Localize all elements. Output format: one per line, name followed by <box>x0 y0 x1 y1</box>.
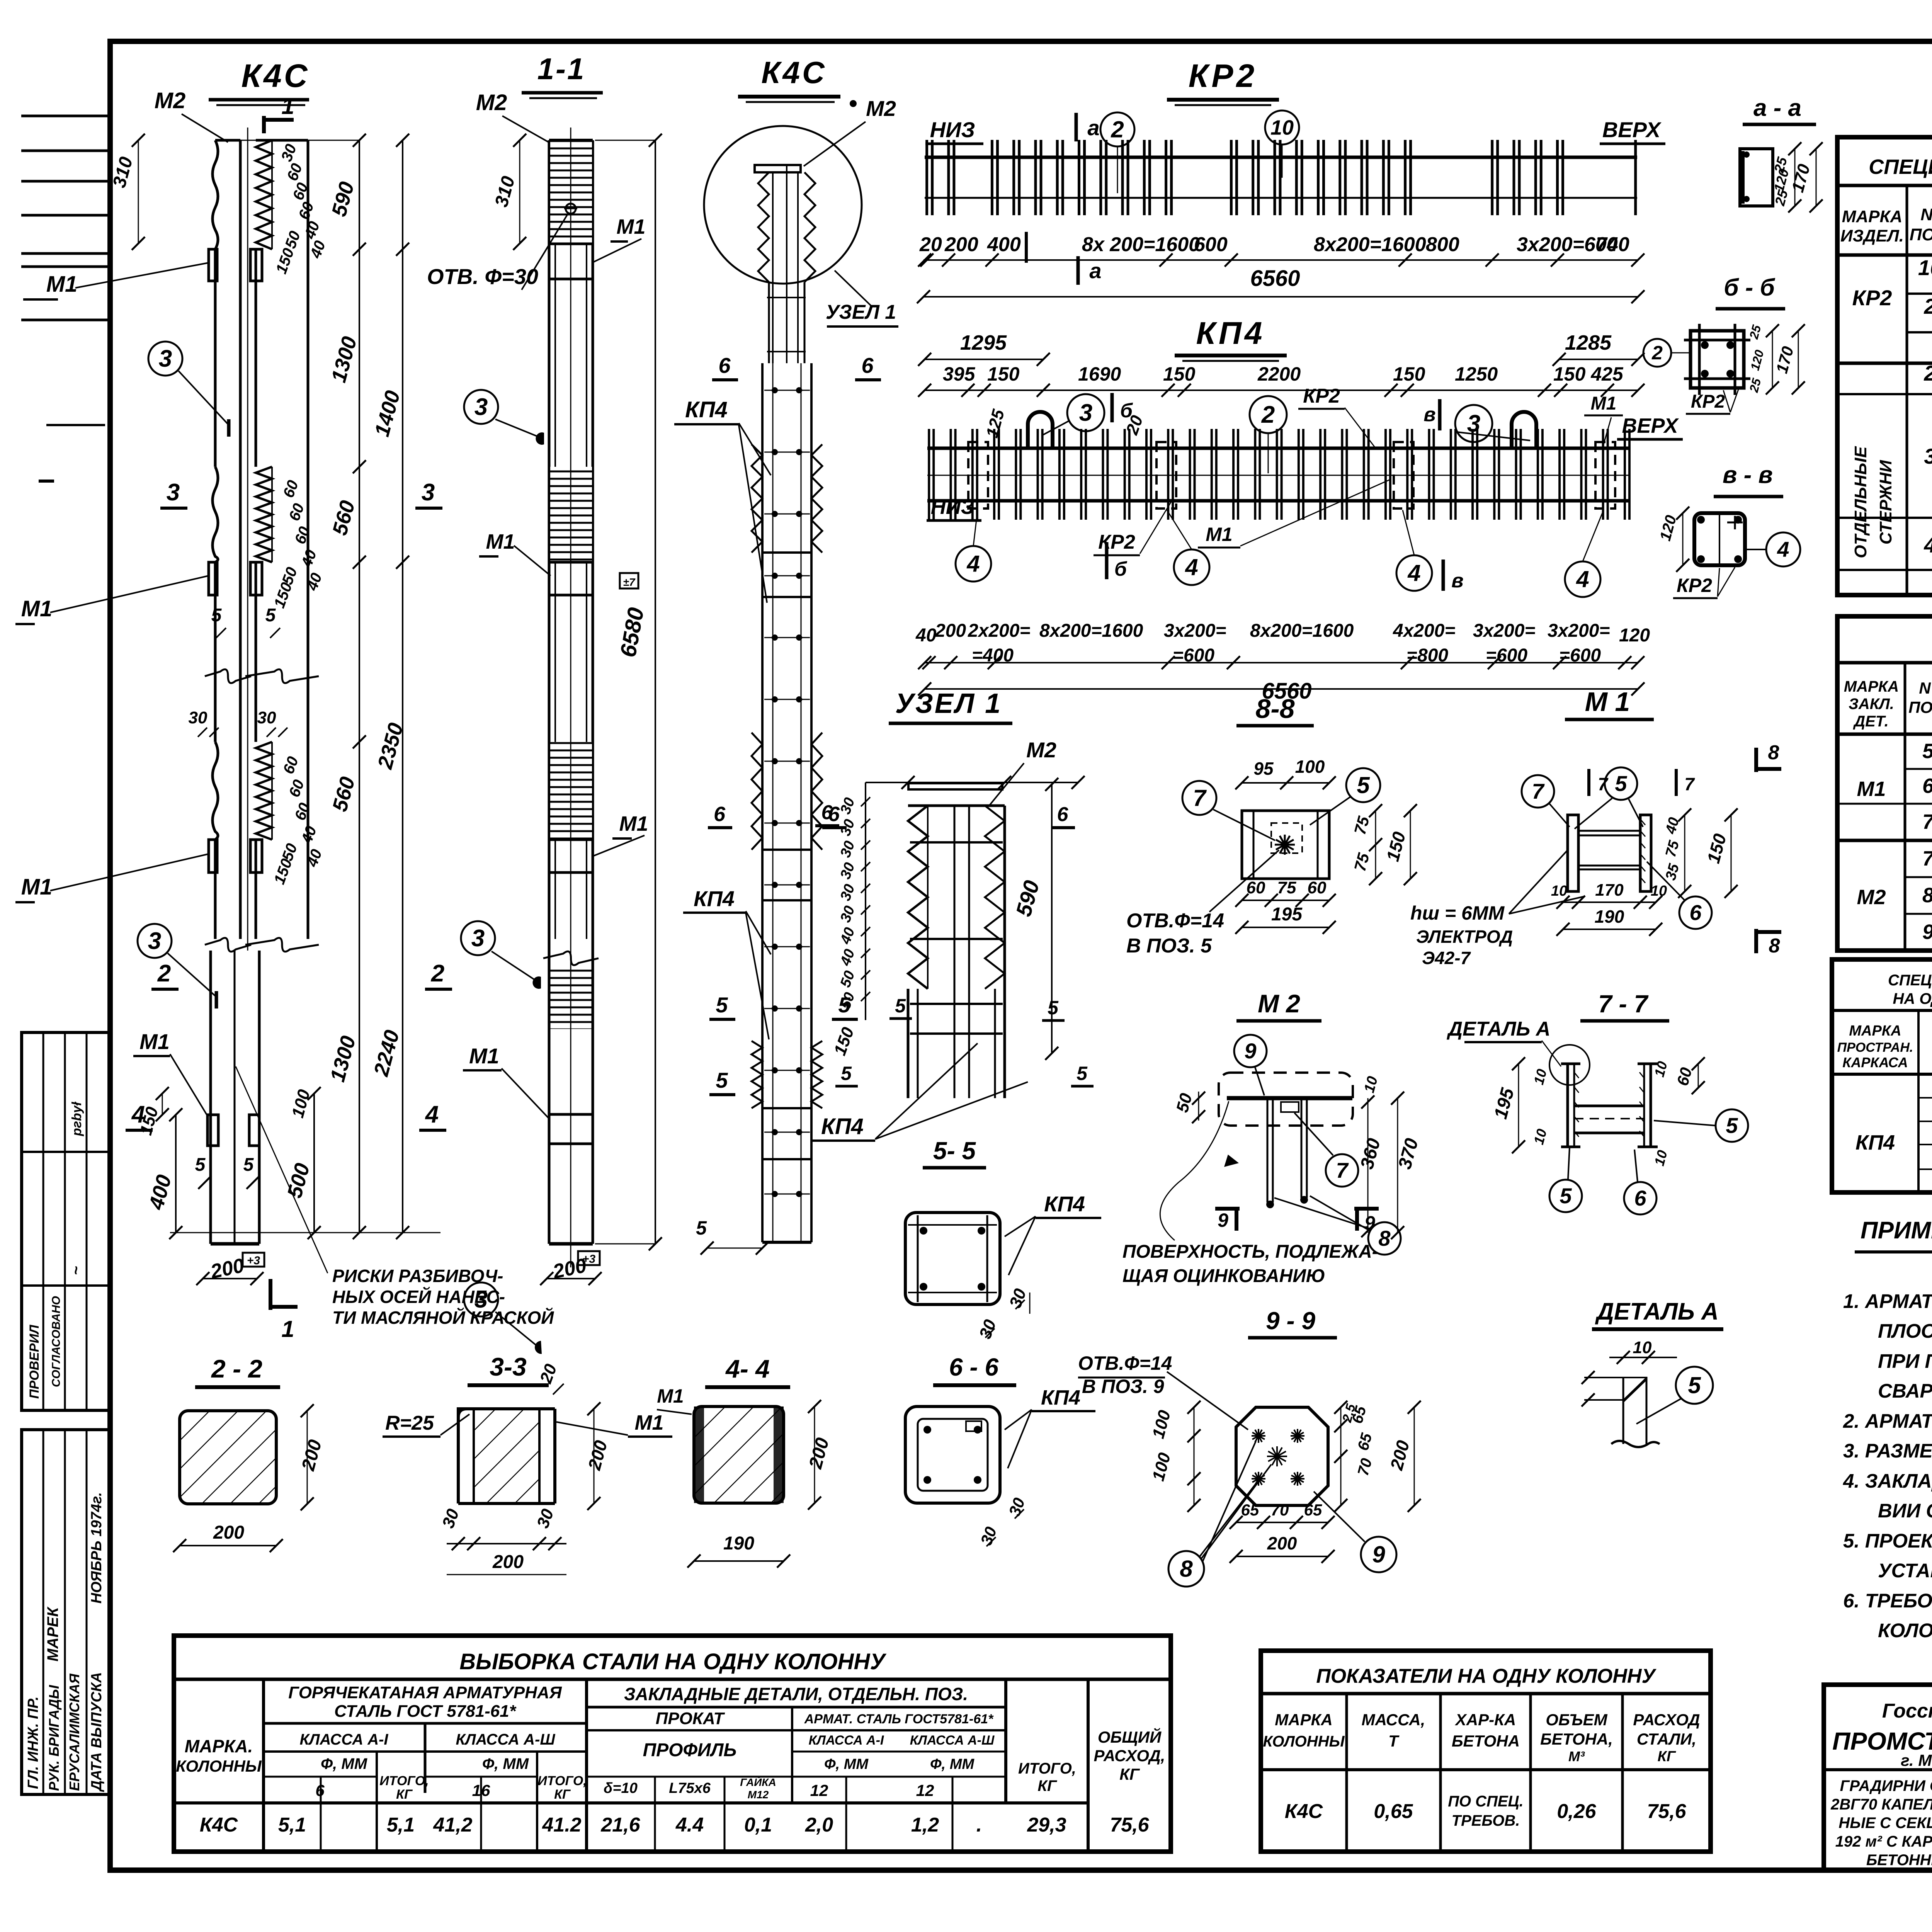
svg-text:НИЗ: НИЗ <box>930 117 975 142</box>
detail M1 top marks 7 <box>1587 769 1590 796</box>
svg-text:2: 2 <box>157 960 171 987</box>
svg-text:ТИ МАСЛЯНОЙ КРАСКОЙ: ТИ МАСЛЯНОЙ КРАСКОЙ <box>332 1308 554 1328</box>
svg-text:±7: ±7 <box>623 576 636 588</box>
svg-text:12: 12 <box>916 1781 934 1799</box>
svg-text:ИЗДЕЛ.: ИЗДЕЛ. <box>1840 226 1904 245</box>
svg-text:КП4: КП4 <box>821 1114 864 1139</box>
uzel 1 top dim <box>866 782 1078 783</box>
svg-text:8х 200=1600: 8х 200=1600 <box>1082 233 1200 256</box>
svg-text:8: 8 <box>1768 742 1779 764</box>
svg-text:70: 70 <box>1271 1501 1289 1519</box>
svg-text:600: 600 <box>1194 233 1228 256</box>
svg-text:60: 60 <box>1308 878 1327 897</box>
svg-text:5: 5 <box>1048 997 1059 1019</box>
svg-text:8х200=1600: 8х200=1600 <box>1039 621 1143 641</box>
svg-text:ПОВЕРХНОСТЬ, ПОДЛЕЖА-: ПОВЕРХНОСТЬ, ПОДЛЕЖА- <box>1122 1242 1378 1262</box>
svg-text:М1: М1 <box>139 1029 170 1054</box>
svg-text:2: 2 <box>1923 361 1932 385</box>
svg-text:М³: М³ <box>1568 1748 1585 1764</box>
svg-text:150: 150 <box>987 363 1020 385</box>
axis line col2 <box>570 128 571 1267</box>
svg-text:120: 120 <box>1619 625 1650 646</box>
svg-text:2: 2 <box>1111 116 1124 142</box>
svg-text:3: 3 <box>167 479 180 506</box>
svg-text:ПО СПЕЦ.: ПО СПЕЦ. <box>1448 1793 1524 1810</box>
svg-text:5: 5 <box>195 1155 206 1175</box>
title block <box>1824 1685 1932 1870</box>
svg-text:9: 9 <box>1218 1209 1228 1231</box>
svg-text:395: 395 <box>943 363 976 385</box>
section 5-5 body <box>905 1213 1000 1304</box>
svg-text:740: 740 <box>1596 233 1629 256</box>
svg-text:ОТВ.Ф=14: ОТВ.Ф=14 <box>1078 1352 1172 1374</box>
svg-text:10: 10 <box>1633 1338 1652 1357</box>
svg-text:М1: М1 <box>21 596 53 621</box>
col2 bottom 200 <box>547 1278 595 1279</box>
section flag 1 at top <box>262 116 266 133</box>
svg-text:5: 5 <box>243 1155 254 1175</box>
svg-text:+3: +3 <box>247 1254 260 1267</box>
K4C right dimension line B <box>402 140 403 1233</box>
svg-text:400: 400 <box>987 233 1021 256</box>
svg-text:3. РАЗМЕРЫ КАРКАСОВ ДАНЫ П: 3. РАЗМЕРЫ КАРКАСОВ ДАНЫ ПО ОСЯМ СТЕРЖНЕ… <box>1843 1439 1932 1462</box>
svg-text:6: 6 <box>1922 774 1932 798</box>
svg-text:9 - 9: 9 - 9 <box>1266 1307 1315 1335</box>
svg-text:4: 4 <box>1576 566 1589 592</box>
svg-text:6. ТРЕБОВАНИЯ К БЕТОНУ И СТ: 6. ТРЕБОВАНИЯ К БЕТОНУ И СТАЛИ И УКАЗАНИ… <box>1843 1590 1932 1612</box>
svg-text:δ=10: δ=10 <box>604 1780 638 1796</box>
svg-text:М1: М1 <box>1591 393 1617 414</box>
svg-text:4: 4 <box>1923 533 1932 557</box>
svg-text:КР2: КР2 <box>1852 286 1892 310</box>
svg-text:г. Москва 197 г.: г. Москва 197 г. <box>1901 1751 1932 1769</box>
svg-text:6: 6 <box>1689 900 1702 925</box>
svg-text:1250: 1250 <box>1455 363 1498 385</box>
svg-text:БЕТОННЫХ ЭЛЕМЕНТОВ: БЕТОННЫХ ЭЛЕМЕНТОВ <box>1866 1852 1932 1869</box>
svg-text:б: б <box>1114 558 1128 580</box>
KR2 total 6560 <box>923 296 1638 298</box>
svg-text:НИЗ: НИЗ <box>931 495 975 519</box>
svg-text:1. АРМАТУРНЫЕ ИЗДЕЛИЯ ИЗГОТ: 1. АРМАТУРНЫЕ ИЗДЕЛИЯ ИЗГОТОВЛЯТЬ В СООТ… <box>1843 1290 1932 1312</box>
svg-text:3х200=: 3х200= <box>1473 621 1536 641</box>
svg-text:ЩАЯ ОЦИНКОВАНИЮ: ЩАЯ ОЦИНКОВАНИЮ <box>1122 1266 1325 1286</box>
K4C circled 3 lower <box>138 924 172 958</box>
svg-text:КГ: КГ <box>1658 1748 1676 1765</box>
col3 tie lines and dots <box>764 390 810 391</box>
uzel 1 detail circle <box>704 126 862 284</box>
svg-text:150 425: 150 425 <box>1553 363 1624 385</box>
svg-text:в: в <box>1423 403 1435 426</box>
svg-text:ПОЗ.: ПОЗ. <box>1910 225 1932 244</box>
detail M2 leader to corner <box>1224 1155 1239 1167</box>
svg-text:Э42-7: Э42-7 <box>1422 948 1471 968</box>
svg-text:3: 3 <box>471 925 485 952</box>
svg-text:5: 5 <box>1615 771 1627 796</box>
table 3: reinforcement items per space frame <box>1832 959 1932 1192</box>
svg-text:3: 3 <box>474 1286 488 1313</box>
svg-text:КР2: КР2 <box>1189 58 1257 94</box>
K4C lower dims <box>313 1094 315 1233</box>
svg-text:НЫЕ С СЕКЦИЯМИ ПЛОЩАДЬЮ: НЫЕ С СЕКЦИЯМИ ПЛОЩАДЬЮ <box>1838 1815 1932 1832</box>
svg-text:8: 8 <box>1180 1556 1193 1582</box>
svg-text:8: 8 <box>1922 884 1932 907</box>
section 9-9 circled labels <box>1168 1551 1204 1587</box>
svg-text:ИТОГО,: ИТОГО, <box>537 1774 587 1788</box>
svg-text:ТРЕБОВ.: ТРЕБОВ. <box>1452 1812 1520 1829</box>
section 7-7 detail A circle <box>1549 1045 1590 1085</box>
svg-text:ПОЗ.: ПОЗ. <box>1908 698 1932 716</box>
svg-text:1,2: 1,2 <box>911 1814 939 1836</box>
svg-text:НОЯБРЬ 1974г.: НОЯБРЬ 1974г. <box>88 1492 105 1604</box>
section 8-8 body <box>1242 811 1329 879</box>
svg-text:6: 6 <box>1634 1186 1646 1210</box>
svg-text:5,1: 5,1 <box>387 1814 415 1836</box>
svg-text:800: 800 <box>1426 233 1459 256</box>
svg-text:в: в <box>1451 570 1463 592</box>
svg-text:М2: М2 <box>1857 886 1886 909</box>
svg-text:0,65: 0,65 <box>1374 1800 1413 1823</box>
column K4C strip B outline <box>256 139 308 142</box>
svg-text:ПРИМЕЧАНИЯ:: ПРИМЕЧАНИЯ: <box>1861 1217 1932 1244</box>
svg-text:6560: 6560 <box>1250 266 1300 291</box>
svg-text:65: 65 <box>1241 1501 1259 1519</box>
svg-text:МАРКА: МАРКА <box>1842 207 1903 226</box>
svg-text:КГ: КГ <box>396 1787 413 1802</box>
svg-text:К4С: К4С <box>1285 1800 1323 1823</box>
svg-text:ВЕРХ: ВЕРХ <box>1622 414 1679 437</box>
svg-text:ИТОГО,: ИТОГО, <box>1018 1760 1076 1777</box>
svg-text:АРМАТ. СТАЛЬ ГОСТ5781-61*: АРМАТ. СТАЛЬ ГОСТ5781-61* <box>804 1712 994 1726</box>
col2 310 dims <box>519 140 520 243</box>
svg-text:10: 10 <box>1918 255 1932 280</box>
svg-text:БЕТОНА,: БЕТОНА, <box>1540 1730 1613 1748</box>
svg-text:0,1: 0,1 <box>744 1814 772 1836</box>
svg-text:ПЛОСКИЕ КАРКАСЫ-ТОЧЕЧНОЙ СВА: ПЛОСКИЕ КАРКАСЫ-ТОЧЕЧНОЙ СВАРКОЙ; ПРОСТР… <box>1878 1319 1932 1342</box>
bottom table: indicators per one column <box>1261 1651 1711 1852</box>
svg-text:КЛАССА А-I: КЛАССА А-I <box>299 1731 388 1748</box>
svg-text:3: 3 <box>474 394 488 420</box>
svg-text:ПРИ ПОМОЩИ СВАРОЧНЫХ КЛЕЩЕЙ: ПРИ ПОМОЩИ СВАРОЧНЫХ КЛЕЩЕЙ; ЗАКЛАДНЫЕ Д… <box>1878 1349 1932 1372</box>
svg-text:ИТОГО,: ИТОГО, <box>379 1774 429 1788</box>
bottom dim 200 and mark <box>203 1278 257 1279</box>
svg-text:3: 3 <box>422 479 435 506</box>
detail M2 section marks 9 <box>1215 1207 1240 1211</box>
svg-text:30: 30 <box>189 708 207 727</box>
svg-text:ГОРЯЧЕКАТАНАЯ АРМАТУРНАЯ: ГОРЯЧЕКАТАНАЯ АРМАТУРНАЯ <box>288 1683 562 1702</box>
svg-text:5: 5 <box>1560 1184 1572 1208</box>
svg-text:СПЕЦИФИКАЦИЯ И ВЫБОРКА СТАЛ: СПЕЦИФИКАЦИЯ И ВЫБОРКА СТАЛИ НА ОДНО АРМ… <box>1869 155 1932 179</box>
svg-text:150: 150 <box>1393 363 1425 385</box>
left stamp band <box>22 1032 110 1410</box>
svg-text:8х200=1600: 8х200=1600 <box>1314 233 1426 256</box>
svg-text:Т: Т <box>1388 1732 1400 1750</box>
svg-text:б - б: б - б <box>1724 274 1775 301</box>
col2 circled 3 lower <box>461 921 495 955</box>
svg-text:21,6: 21,6 <box>600 1814 640 1836</box>
svg-text:2. АРМАТУРНЫЕ ИЗДЕЛИЯ ДОЛЖНЫ: 2. АРМАТУРНЫЕ ИЗДЕЛИЯ ДОЛЖНЫ ОТВЕЧАТЬ ТР… <box>1843 1410 1932 1432</box>
col2 circled 3 bottom <box>464 1282 498 1316</box>
section 9-9 right dims <box>1340 1407 1342 1505</box>
svg-text:L75х6: L75х6 <box>669 1780 711 1796</box>
svg-text:6: 6 <box>714 803 726 826</box>
detail A circled 5 <box>1676 1367 1713 1404</box>
svg-text:1285: 1285 <box>1565 331 1612 354</box>
svg-text:7: 7 <box>1684 774 1695 794</box>
uzel 1 tie bars <box>910 841 1003 844</box>
svg-text:КП4: КП4 <box>1855 1131 1895 1154</box>
svg-text:3: 3 <box>1079 400 1092 426</box>
detail M1 bottom dims <box>1563 901 1656 903</box>
svg-text:95: 95 <box>1253 759 1274 779</box>
column 1-1 hatched zones <box>550 140 592 243</box>
svg-text:2: 2 <box>431 960 444 987</box>
svg-text:6: 6 <box>821 801 833 824</box>
svg-text:МАРКА: МАРКА <box>1844 678 1899 695</box>
KR2 ties <box>925 140 928 215</box>
svg-text:1690: 1690 <box>1078 363 1121 385</box>
svg-text:0,26: 0,26 <box>1557 1800 1596 1823</box>
svg-text:R=25: R=25 <box>385 1412 434 1434</box>
svg-text:УСТАНОВКОЙ ПЛАСТМАССОВЫХ ИЛИ: УСТАНОВКОЙ ПЛАСТМАССОВЫХ ИЛИ БЕТОННЫХ ФИ… <box>1878 1559 1932 1582</box>
svg-text:В ПОЗ. 5: В ПОЗ. 5 <box>1126 935 1212 957</box>
svg-text:9: 9 <box>1364 1212 1375 1234</box>
KP4 M1 dashed boxes <box>968 442 988 509</box>
col3 shaft <box>761 363 764 1242</box>
section 8-8 right dims <box>1375 811 1376 879</box>
svg-text:Ф, ММ: Ф, ММ <box>321 1755 368 1772</box>
svg-text:КАРКАСА: КАРКАСА <box>1842 1054 1908 1070</box>
detail M2 plate bar <box>1227 1096 1352 1100</box>
svg-text:4: 4 <box>966 551 980 577</box>
section 3-3 body <box>458 1409 555 1503</box>
svg-text:3-3: 3-3 <box>490 1352 526 1381</box>
svg-text:КП4: КП4 <box>1041 1386 1080 1409</box>
svg-text:ЭЛЕКТРОД: ЭЛЕКТРОД <box>1416 927 1513 947</box>
svg-text:М1: М1 <box>46 272 78 297</box>
svg-text:ВЫБОРКА СТАЛИ НА ОДНУ: ВЫБОРКА СТАЛИ НА ОДНУ КОЛОННУ <box>459 1649 886 1674</box>
svg-text:8: 8 <box>1769 935 1780 957</box>
svg-text:ДЕТАЛЬ А: ДЕТАЛЬ А <box>1595 1298 1719 1325</box>
svg-text:N°: N° <box>1920 205 1932 224</box>
svg-text:2 - 2: 2 - 2 <box>211 1354 262 1383</box>
svg-text:КП4: КП4 <box>1044 1192 1085 1216</box>
svg-text:3х200=: 3х200= <box>1164 621 1226 641</box>
svg-text:192 м² С КАРКАСОМ ИЗ ЖЕЛЕЗО-: 192 м² С КАРКАСОМ ИЗ ЖЕЛЕЗО- <box>1835 1833 1932 1850</box>
svg-text:М1: М1 <box>21 874 53 900</box>
detail M1 body <box>1568 815 1578 891</box>
svg-text:ГЛ. ИНЖ. ПР.: ГЛ. ИНЖ. ПР. <box>25 1696 41 1789</box>
column 1-1 lower part <box>548 939 551 1244</box>
section 8-8 star bolt <box>1275 835 1295 855</box>
svg-text:КГ: КГ <box>1119 1765 1140 1783</box>
section 8-8 circled labels <box>1182 781 1216 815</box>
svg-text:ХАР-КА: ХАР-КА <box>1455 1711 1516 1729</box>
svg-text:3х200=: 3х200= <box>1548 621 1610 641</box>
svg-text:5: 5 <box>211 605 222 626</box>
svg-text:М1: М1 <box>486 530 515 553</box>
col3 top cap <box>755 165 801 172</box>
svg-text:М1: М1 <box>634 1411 663 1434</box>
svg-text:=600: =600 <box>1559 645 1601 666</box>
section 6-6 body <box>905 1406 1000 1503</box>
svg-text:29,3: 29,3 <box>1027 1814 1066 1836</box>
svg-text:М 1: М 1 <box>1585 687 1630 717</box>
column K4C lower shaft <box>209 951 212 1244</box>
svg-text:2: 2 <box>1923 294 1932 318</box>
KP4 lower dim row <box>925 662 1638 663</box>
svg-text:4. ЗАКЛАДНУЮ ДЕТАЛЬ М2 МЕТ: 4. ЗАКЛАДНУЮ ДЕТАЛЬ М2 МЕТАЛЛИЗИРОВАТЬ Ц… <box>1843 1470 1932 1492</box>
svg-text:М1: М1 <box>1206 524 1232 545</box>
svg-text:10: 10 <box>1651 883 1667 899</box>
svg-text:ОТВ.Ф=14: ОТВ.Ф=14 <box>1126 910 1224 932</box>
svg-text:75: 75 <box>1277 878 1296 897</box>
svg-text:150: 150 <box>1163 363 1196 385</box>
svg-text:=400: =400 <box>972 645 1014 666</box>
KP4 total 6560 <box>925 688 1638 690</box>
column axis line <box>247 128 248 951</box>
KR2 chords <box>925 156 1637 159</box>
K4C right dimension line A <box>359 140 360 1233</box>
svg-text:КЛАССА А-I: КЛАССА А-I <box>809 1733 884 1748</box>
section 9-9 body <box>1236 1407 1328 1505</box>
svg-text:10: 10 <box>1270 116 1294 139</box>
svg-text:170: 170 <box>1595 881 1624 900</box>
svg-text:К4С: К4С <box>761 55 827 90</box>
section 9-9 bottom dims <box>1236 1522 1328 1523</box>
svg-text:К4С: К4С <box>241 58 310 94</box>
svg-text:65: 65 <box>1304 1501 1322 1519</box>
column 1-1 body <box>549 139 593 142</box>
svg-text:2ВГ70 КАПЕЛЬНЫЕ И БРЫЗГАЛЬ-: 2ВГ70 КАПЕЛЬНЫЕ И БРЫЗГАЛЬ- <box>1830 1796 1932 1813</box>
svg-text:Госстрой СССР: Госстрой СССР <box>1882 1700 1932 1722</box>
svg-text:200: 200 <box>492 1552 524 1572</box>
svg-text:4- 4: 4- 4 <box>725 1354 770 1383</box>
svg-text:=600: =600 <box>1486 645 1527 666</box>
svg-text:N°: N° <box>1919 679 1932 697</box>
uzel 1 bottom legs <box>907 989 910 1098</box>
section flag 1 bottom <box>269 1279 272 1310</box>
svg-text:КП4: КП4 <box>685 397 728 422</box>
col3 flute bands <box>752 444 762 553</box>
svg-text:Ф, ММ: Ф, ММ <box>824 1756 869 1772</box>
svg-text:+3: +3 <box>582 1253 596 1265</box>
column 1-1 M1 boxes <box>549 244 593 279</box>
uzel 1 body <box>908 783 1002 789</box>
svg-text:МАРКА.: МАРКА. <box>185 1736 253 1756</box>
svg-text:10: 10 <box>1551 883 1567 899</box>
svg-text:КП4: КП4 <box>1196 316 1265 351</box>
section 2-2 dims <box>307 1411 308 1504</box>
svg-text:5: 5 <box>1688 1372 1701 1398</box>
svg-text:КОЛОННЫ: КОЛОННЫ <box>1263 1733 1345 1750</box>
bottom table: steel selection per one column <box>174 1636 1171 1852</box>
svg-text:hш = 6ММ: hш = 6ММ <box>1410 902 1505 924</box>
fold marks left margin <box>21 115 110 117</box>
uzel 1 left dim ticks <box>865 782 866 1020</box>
KP4 circled marks <box>1067 394 1104 431</box>
svg-text:2200: 2200 <box>1257 363 1301 385</box>
section 7-7 body <box>1568 1063 1574 1065</box>
svg-text:ГАЙКА: ГАЙКА <box>740 1776 776 1788</box>
detail M2 circled labels <box>1234 1035 1267 1067</box>
svg-text:7: 7 <box>1336 1158 1349 1182</box>
detail A body <box>1622 1377 1624 1444</box>
svg-text:СОГЛАСОВАНО: СОГЛАСОВАНО <box>50 1296 63 1387</box>
svg-text:7: 7 <box>1532 779 1545 803</box>
svg-text:КП4: КП4 <box>694 886 735 911</box>
detail M1 right dims <box>1684 815 1685 891</box>
svg-text:В ПОЗ. 9: В ПОЗ. 9 <box>1082 1376 1164 1397</box>
svg-text:ПРОВЕРИЛ: ПРОВЕРИЛ <box>27 1325 42 1399</box>
svg-text:8х200=1600: 8х200=1600 <box>1250 621 1354 641</box>
break marks <box>205 669 251 683</box>
svg-text:6: 6 <box>1057 803 1069 826</box>
svg-text:=800: =800 <box>1406 645 1448 666</box>
svg-text:195: 195 <box>1271 904 1303 925</box>
svg-text:3: 3 <box>159 345 172 372</box>
svg-text:РАСХОД,: РАСХОД, <box>1094 1747 1165 1765</box>
svg-text:6: 6 <box>718 353 731 378</box>
hole otv f30 <box>566 204 576 214</box>
KP4 upper dim rows <box>925 359 1043 360</box>
svg-text:2х200=: 2х200= <box>968 621 1031 641</box>
svg-text:200: 200 <box>1267 1533 1297 1553</box>
svg-text:СТАЛИ,: СТАЛИ, <box>1637 1730 1696 1748</box>
svg-text:УЗЕЛ 1: УЗЕЛ 1 <box>895 688 1002 719</box>
svg-text:200: 200 <box>944 233 978 256</box>
svg-text:190: 190 <box>723 1533 754 1554</box>
svg-text:ПОКАЗАТЕЛИ НА ОДНУ КОЛОНН: ПОКАЗАТЕЛИ НА ОДНУ КОЛОННУ <box>1316 1665 1656 1687</box>
KP4 ties <box>928 429 930 520</box>
svg-text:~: ~ <box>68 1266 85 1275</box>
svg-text:4: 4 <box>1185 554 1198 580</box>
detail M1 weld hatch <box>1640 819 1645 825</box>
svg-text:75,6: 75,6 <box>1647 1800 1686 1823</box>
section 8-8 bottom dims <box>1242 900 1329 901</box>
col3 M1 boxes <box>762 553 811 597</box>
svg-text:1-1: 1-1 <box>537 52 586 86</box>
svg-text:ПРОКАТ: ПРОКАТ <box>656 1709 725 1728</box>
svg-text:КР2: КР2 <box>1098 531 1135 553</box>
svg-text:ВИИ С П.3.10 ПОЯСНИТЕЛЬНОЙ: ВИИ С П.3.10 ПОЯСНИТЕЛЬНОЙ ЗАПИСКИ. <box>1878 1499 1932 1522</box>
svg-text:ДЕТ.: ДЕТ. <box>1853 713 1889 730</box>
svg-text:200: 200 <box>213 1522 244 1543</box>
svg-text:40: 40 <box>915 625 937 646</box>
svg-text:1295: 1295 <box>960 331 1007 354</box>
detail M2 anchor legs <box>1267 1098 1269 1202</box>
KP4 pos3 hooks <box>1028 412 1053 448</box>
svg-text:.: . <box>976 1814 982 1836</box>
svg-text:ОТДЕЛЬНЫЕ: ОТДЕЛЬНЫЕ <box>1851 446 1870 558</box>
svg-text:5- 5: 5- 5 <box>933 1137 976 1165</box>
svg-text:5: 5 <box>895 995 906 1017</box>
detail M2 dashed contour <box>1219 1073 1353 1126</box>
svg-text:ЕРУСАЛИМСКАЯ: ЕРУСАЛИМСКАЯ <box>66 1673 82 1791</box>
svg-text:РУК. БРИГАДЫ: РУК. БРИГАДЫ <box>46 1685 62 1791</box>
svg-text:Ф, ММ: Ф, ММ <box>930 1756 975 1772</box>
svg-text:3: 3 <box>1924 444 1932 468</box>
svg-text:КГ: КГ <box>554 1787 571 1802</box>
svg-text:1: 1 <box>281 93 294 119</box>
svg-text:8: 8 <box>1378 1226 1391 1250</box>
svg-text:60: 60 <box>1247 878 1265 897</box>
svg-text:в - в: в - в <box>1723 462 1773 488</box>
table 2: steel per embedded detail <box>1837 616 1932 951</box>
svg-text:КР2: КР2 <box>1677 575 1712 596</box>
svg-text:5,1: 5,1 <box>278 1814 306 1836</box>
column K4C strip A M1 plates <box>209 249 217 281</box>
column K4C strip B M1 plates <box>250 249 262 281</box>
